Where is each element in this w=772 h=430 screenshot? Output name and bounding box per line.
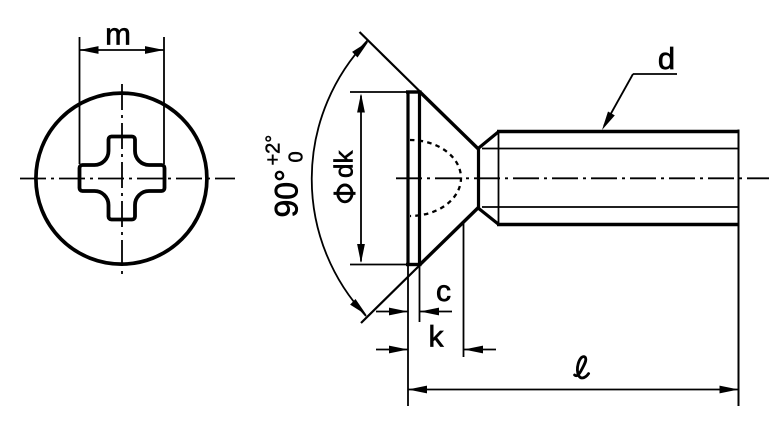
thread chamfer top xyxy=(478,132,499,149)
shank end line + length extension line right xyxy=(738,130,740,407)
svg-text:0: 0 xyxy=(285,151,307,162)
phillips cross recess outline xyxy=(80,137,165,220)
90 deg angle extension line bottom xyxy=(361,264,421,323)
extension line for k at cone-shank intersection xyxy=(463,222,465,357)
head outline circle (top view) xyxy=(36,93,207,264)
label c xyxy=(436,275,451,308)
chamfer end vertical line xyxy=(498,132,500,225)
label 90 deg with tolerance (rotated) xyxy=(262,135,307,218)
thread root top line xyxy=(482,148,739,150)
dimension line m with arrowheads xyxy=(80,46,165,54)
head face right line xyxy=(418,91,421,267)
svg-text:dk: dk xyxy=(329,150,359,178)
dimension line length l with arrowheads xyxy=(408,386,739,394)
svg-text:+2°: +2° xyxy=(262,135,284,166)
hidden recess depth curve (dashed) xyxy=(410,140,461,216)
90 degree angle dimension arc xyxy=(312,41,369,317)
neck line at cone end xyxy=(477,148,480,209)
extension line right of dimension m xyxy=(163,37,165,164)
dimension k arrows xyxy=(376,346,496,354)
label k xyxy=(429,321,445,354)
leader line for d xyxy=(602,74,677,130)
vertical centerline of head xyxy=(121,84,123,278)
90 deg angle extension line top xyxy=(360,32,422,93)
head bottom edge + dk bottom extension line xyxy=(350,264,422,266)
label d xyxy=(658,41,675,76)
svg-text:c: c xyxy=(436,275,451,308)
extension line left of dimension m xyxy=(79,37,81,164)
extension line of head face right for c xyxy=(419,266,421,322)
countersunk cone top surface xyxy=(420,92,479,150)
head top edge + dk top extension line xyxy=(350,91,422,93)
dimension c arrows xyxy=(376,308,452,316)
label m xyxy=(105,17,131,52)
label dk (rotated) xyxy=(329,150,359,202)
label l (script ell) xyxy=(575,357,589,378)
dimension line dk with arrowheads xyxy=(357,94,365,264)
countersunk cone bottom surface xyxy=(420,207,479,265)
svg-text:m: m xyxy=(105,17,131,52)
horizontal centerline of head xyxy=(20,178,235,180)
svg-text:d: d xyxy=(658,41,675,76)
thread crest top line xyxy=(497,130,739,134)
thread chamfer bottom xyxy=(478,208,499,225)
screw axis centerline xyxy=(396,177,769,179)
extension line of head face left for c,k,length xyxy=(407,266,409,406)
thread crest bottom line xyxy=(497,223,739,227)
svg-text:k: k xyxy=(429,321,445,354)
thread root bottom line xyxy=(482,206,739,208)
svg-text:90°: 90° xyxy=(268,169,304,217)
head face left line xyxy=(406,91,409,267)
